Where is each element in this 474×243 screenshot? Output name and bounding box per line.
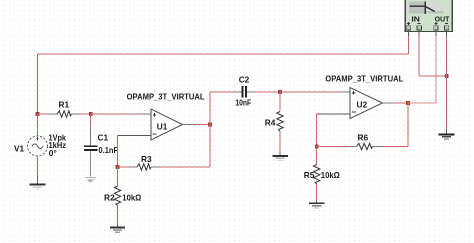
- resistor R6: [349, 132, 381, 149]
- svg-text:OPAMP_3T_VIRTUAL: OPAMP_3T_VIRTUAL: [325, 74, 403, 84]
- pin U1 plus input stub: [140, 113, 151, 115]
- capacitor C1 value 0.1nF: [84, 124, 118, 177]
- node A: junction V1/R1/top-loop: [36, 112, 40, 116]
- node D: junction U1out/C2/R3: [208, 123, 212, 127]
- ground GND6 (bode plotter): [439, 129, 455, 140]
- wire R3 left from node C: [118, 166, 130, 168]
- svg-text:0°: 0°: [49, 148, 58, 158]
- wire node E to U2 plus input: [280, 91, 340, 93]
- wire node B to U1 plus input: [91, 113, 140, 115]
- wire U2 output to node G: [394, 102, 408, 104]
- node E: junction C2/R4/U2+: [278, 90, 282, 94]
- node B: junction R1/C1/U1+: [89, 112, 93, 116]
- svg-text:V1: V1: [14, 143, 24, 153]
- capacitor C2 value 10nF: [234, 75, 256, 108]
- instrument XBP1 Bode plotter: [405, 0, 452, 32]
- wire node B down to C1: [90, 114, 92, 124]
- wire U1 minus column down: [117, 136, 119, 168]
- wire node D down to R3: [209, 125, 211, 168]
- wire R1 left segment: [38, 113, 49, 115]
- wire top feedback loop horizontal: [38, 53, 409, 55]
- wire node D up to C2 row: [209, 92, 211, 125]
- wire XBP1 OUT+ horizontal to node G: [408, 102, 436, 104]
- wire U2 minus column down: [316, 114, 318, 147]
- wire node G down to R6: [407, 103, 409, 147]
- node H: junction IN-/OUT-: [445, 74, 449, 78]
- wire node C down to R2: [117, 167, 119, 186]
- wire XBP1 IN- vertical: [418, 36, 420, 76]
- wire XBP1 IN+ down to top loop: [408, 36, 410, 54]
- wire node A down to V1: [37, 114, 39, 136]
- ground GND5 (R5): [309, 201, 324, 208]
- resistor R3: [129, 154, 160, 170]
- svg-text:R6: R6: [358, 132, 369, 142]
- svg-text:10kΩ: 10kΩ: [321, 170, 340, 180]
- wire XBP1 OUT+ stub: [435, 30, 437, 36]
- svg-text:0.1nF: 0.1nF: [99, 145, 119, 155]
- resistor R1: [48, 99, 80, 117]
- svg-text:R4: R4: [265, 117, 276, 127]
- wire XBP1 OUT- vertical to ground: [446, 36, 448, 129]
- wire top loop left vertical: [37, 54, 39, 114]
- node F: junction R6/R5/U2minus: [315, 145, 319, 149]
- wire R3 right to node D column: [160, 166, 211, 168]
- pin U2 plus input stub: [340, 91, 351, 93]
- wire XBP1 OUT- stub: [446, 30, 448, 36]
- wire R1 right segment: [80, 113, 91, 115]
- wire node F down to R5: [316, 147, 318, 165]
- wire C2 right to node E: [255, 91, 280, 93]
- svg-text:C2: C2: [239, 75, 250, 85]
- svg-text:R2: R2: [104, 192, 115, 202]
- wire V1 bottom to ground: [37, 156, 39, 176]
- svg-text:U2: U2: [357, 100, 368, 110]
- wire XBP1 IN+ stub: [408, 30, 410, 36]
- svg-text:U1: U1: [157, 122, 168, 132]
- pin U1 output stub: [183, 124, 195, 126]
- svg-text:OPAMP_3T_VIRTUAL: OPAMP_3T_VIRTUAL: [127, 92, 205, 102]
- ground GND1 (V1): [30, 176, 46, 190]
- ground GND2 (C1): [85, 177, 96, 181]
- wire XBP1 OUT+ vertical: [435, 36, 437, 103]
- svg-text:C1: C1: [98, 133, 109, 143]
- wire XBP1 IN- stub: [418, 30, 420, 36]
- ground GND3 (R2): [110, 225, 125, 232]
- op-amp U2: [325, 74, 403, 119]
- node G: junction U2out/OUT+/R6: [406, 101, 410, 105]
- pin U1 minus input wire: [118, 135, 152, 137]
- resistor R5 value 10kOhm: [304, 165, 340, 201]
- op-amp U1: [127, 92, 205, 140]
- source V1 AC voltage source 1Vpk 1kHz 0deg: [14, 133, 66, 158]
- node C: junction R3/R2/U1minus: [116, 165, 120, 169]
- resistor R2 value 10kOhm: [104, 186, 141, 225]
- wire R6 left from node F: [317, 146, 349, 148]
- ground GND4 (R4): [272, 151, 287, 161]
- svg-text:R1: R1: [59, 99, 70, 109]
- svg-text:10nF: 10nF: [235, 98, 251, 108]
- wire R6 right to node G column: [379, 146, 408, 148]
- resistor R4: [265, 112, 283, 152]
- svg-text:10kΩ: 10kΩ: [122, 192, 141, 202]
- wire U1 output to node D: [194, 124, 210, 126]
- pin U2 minus input wire: [317, 113, 350, 115]
- svg-text:OUT: OUT: [435, 14, 450, 23]
- wire node E down to R4: [279, 92, 281, 111]
- svg-text:IN: IN: [411, 14, 420, 23]
- svg-text:R5: R5: [304, 170, 315, 180]
- pin U2 output stub: [383, 102, 395, 104]
- svg-text:R3: R3: [141, 154, 152, 164]
- wire XBP1 IN- horizontal to OUT- column: [419, 75, 446, 77]
- wire C2 left: [210, 91, 234, 93]
